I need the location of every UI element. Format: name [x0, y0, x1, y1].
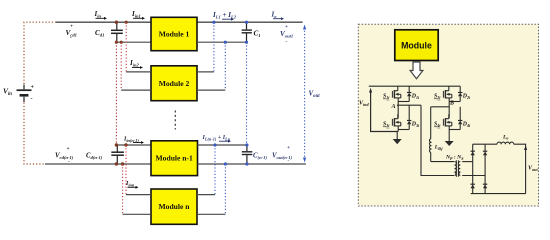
svg-text:Lo: Lo: [502, 134, 508, 140]
wire battery bottom dotted link: [24, 103, 45, 165]
svg-text:-: -: [286, 39, 288, 45]
wire module2 top input: [126, 71, 151, 73]
transformer NP:NS: [455, 160, 461, 177]
wire secondary top to rectifier: [462, 161, 473, 163]
svg-text:-: -: [31, 96, 33, 102]
svg-text:+: +: [70, 23, 73, 29]
capacitor Cd1: [111, 22, 123, 42]
svg-text:-: -: [70, 35, 72, 41]
svg-text:D3i: D3i: [411, 122, 420, 128]
wire red dotted to module2 top input: [125, 22, 127, 72]
ellipsis continuation dots: [174, 111, 176, 130]
wire node B horizontal: [431, 106, 450, 108]
transistor S4i with body diode D4i: [443, 114, 462, 129]
wire blue dotted module n bottom out link: [224, 164, 226, 214]
wire bridge top rail: [369, 85, 460, 87]
panel background: [358, 24, 538, 206]
wire secondary bottom to rectifier: [462, 175, 485, 177]
wire top rail: [56, 21, 303, 23]
svg-text:+: +: [285, 24, 288, 30]
transistor S3i with body diode D3i: [392, 114, 411, 129]
transistor S1i with body diode D1i: [392, 86, 411, 101]
diode lower-left: [471, 184, 475, 188]
module box Module n-1: [151, 141, 198, 176]
wire red dotted series link Cd1- to Cd(n-1)+: [115, 42, 117, 145]
module box Module n: [151, 189, 197, 224]
wire module n-1 bottom output rail: [198, 163, 307, 165]
svg-text:+: +: [287, 145, 290, 151]
wire module2 bottom output: [197, 89, 225, 91]
capacitor C(n-1): [242, 145, 253, 164]
wire module n top output: [197, 194, 215, 196]
svg-text:+: +: [67, 146, 70, 152]
wire module1 bottom output rail: [197, 41, 248, 43]
diode upper-left: [471, 151, 475, 155]
node dots blue lower group: [213, 143, 248, 165]
diode lower-right: [483, 184, 487, 188]
wire battery top dotted link: [24, 22, 56, 84]
wire red dotted to module2 bottom input: [120, 42, 122, 90]
wire module n bottom input: [123, 213, 151, 215]
transistor S2i with body diode D2i: [443, 86, 462, 101]
wire node A horizontal: [397, 104, 421, 106]
wire module n-1 top output rail: [198, 144, 248, 146]
node dots on Cd1 rails: [115, 21, 128, 44]
ground under S3i: [393, 132, 402, 145]
rectifier leg 2: [484, 144, 486, 193]
hollow arrow down: [410, 62, 423, 79]
node dots blue upper group: [212, 21, 248, 44]
wire module2 top output: [197, 71, 214, 73]
wire blue dotted series link C1- to C(n-1)+: [246, 42, 248, 145]
svg-text:+: +: [31, 85, 35, 91]
svg-text:Llkj: Llkj: [434, 145, 444, 151]
wire Lo to output corner: [514, 144, 526, 193]
diode upper-right: [483, 151, 487, 155]
svg-text:Module 2: Module 2: [159, 79, 190, 88]
rectifier leg 1: [472, 144, 474, 193]
capacitor C1: [242, 22, 252, 42]
capacitor Cd(n-1): [111, 145, 124, 164]
module box Module 1: [151, 17, 197, 50]
wire S3i source to return: [397, 130, 399, 132]
wire Cd(n-1) bottom rail: [45, 163, 151, 165]
wire rectifier bottom rail: [471, 193, 526, 195]
wire node B leg to primary top: [431, 161, 454, 163]
svg-text:IL(n-1) + ILn: IL(n-1) + ILn: [202, 135, 231, 141]
inductor Lo: [497, 142, 514, 144]
battery V_in: [17, 85, 32, 103]
voltage bracket Vout blue dotted with arrows: [303, 25, 306, 163]
module box Module 2: [151, 66, 197, 101]
svg-text:S2i: S2i: [434, 94, 441, 100]
svg-text:Vout: Vout: [528, 166, 538, 172]
wire node A down to primary bottom: [421, 105, 454, 175]
svg-text:D4i: D4i: [462, 122, 471, 128]
wire Vind input leg with arrow: [369, 88, 398, 132]
wire node B leg vertical: [448, 102, 450, 119]
wire Cd1 bottom rail: [116, 41, 151, 43]
wire S4i source stem: [448, 130, 450, 142]
wire rectifier top rail: [473, 143, 497, 145]
svg-text:D1i: D1i: [411, 94, 420, 100]
svg-text:Module 1: Module 1: [159, 30, 190, 39]
wire red dotted to module n top input: [125, 145, 127, 195]
wire Cd(n-1) top rail: [116, 144, 151, 146]
node dots on Cd(n-1) rails: [115, 143, 128, 165]
wire module2 bottom input: [121, 89, 151, 91]
svg-text:S1i: S1i: [383, 94, 390, 100]
svg-text:Iinn: Iinn: [125, 181, 135, 187]
module box Module (detail): [395, 30, 438, 61]
inductor Llkj: [429, 107, 430, 162]
current arrowhead at output corner: [524, 145, 527, 150]
wire node A leg vertical: [397, 102, 399, 119]
svg-text:S3i: S3i: [383, 122, 390, 128]
svg-text:B: B: [449, 100, 454, 106]
wire blue dotted module n top out link: [214, 145, 216, 195]
wire blue dotted module2 top out to top rail: [213, 22, 215, 72]
svg-text:S4i: S4i: [434, 122, 441, 128]
svg-text:Module n: Module n: [158, 202, 190, 211]
svg-text:Vind: Vind: [359, 101, 370, 107]
wire blue dotted module2 bottom out to return rail: [224, 42, 226, 90]
svg-text:A: A: [391, 104, 396, 110]
ground under S4i: [445, 141, 454, 146]
wire module n bottom output: [197, 213, 225, 215]
svg-text:D2i: D2i: [462, 94, 471, 100]
svg-text:NP : NS: NP : NS: [445, 155, 464, 161]
svg-text:Iin(n-1): Iin(n-1): [123, 137, 139, 143]
svg-text:Module: Module: [401, 41, 432, 51]
svg-text:Module n-1: Module n-1: [156, 154, 194, 163]
wire module n top input: [126, 194, 151, 196]
wire red dotted to module n bottom input: [122, 164, 124, 214]
